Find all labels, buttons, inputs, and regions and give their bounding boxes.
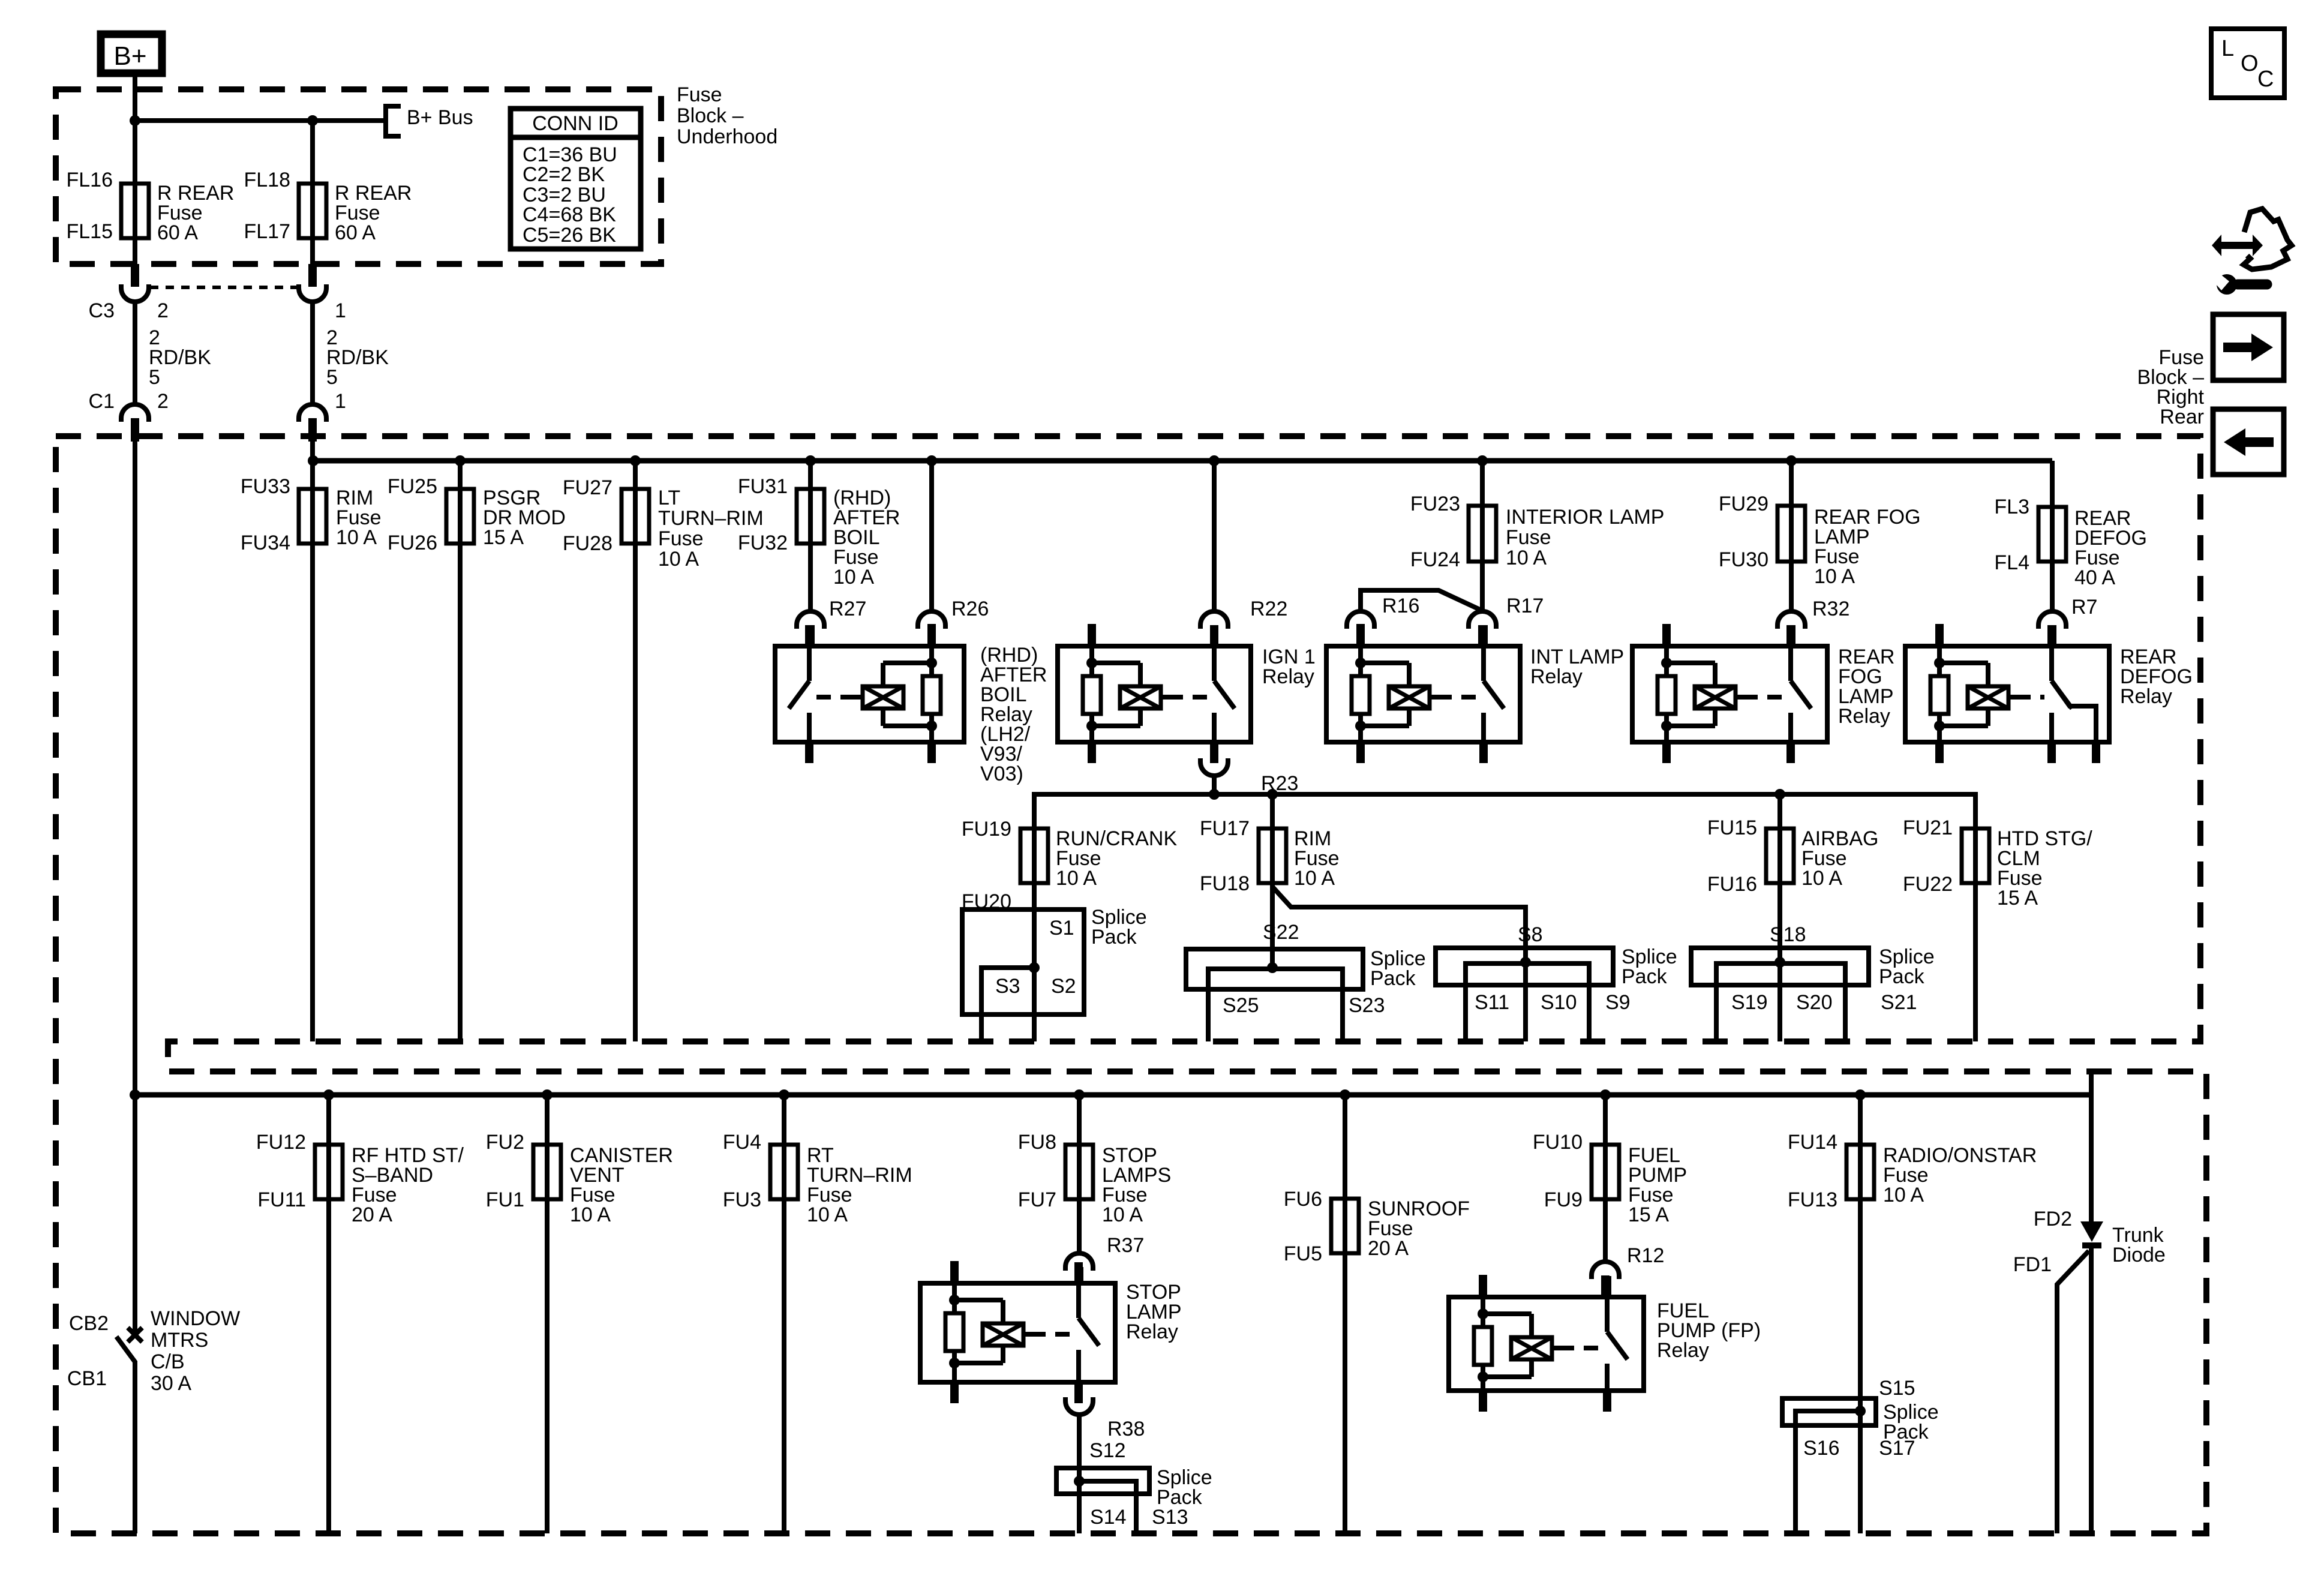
connector B+ Bus bracket (386, 106, 401, 136)
svg-text:15 A: 15 A (1997, 887, 2038, 909)
connector R22 (1200, 611, 1228, 629)
svg-text:60 A: 60 A (157, 221, 198, 244)
wire R16 branch (1361, 590, 1482, 612)
wire diode cathode down (2089, 1248, 2094, 1533)
svg-text:CB2: CB2 (69, 1312, 109, 1335)
svg-text:10 A: 10 A (1801, 867, 1842, 890)
svg-text:60 A: 60 A (335, 221, 376, 244)
wire FU25 column (458, 461, 463, 1041)
table CONN ID (511, 109, 641, 249)
svg-text:FU19: FU19 (962, 818, 1011, 840)
fuse FU19 RUN/CRANK (1020, 828, 1048, 883)
svg-text:FL17: FL17 (244, 220, 291, 243)
svg-text:C: C (2257, 67, 2274, 92)
svg-text:FU33: FU33 (241, 475, 290, 498)
relay U7 coil (1481, 1297, 1485, 1314)
svg-text:FU4: FU4 (723, 1131, 761, 1154)
fuse block right rear dashed outline (56, 436, 2206, 1533)
svg-text:FD1: FD1 (2013, 1253, 2052, 1276)
svg-text:Relay: Relay (1530, 665, 1583, 688)
svg-text:Block –: Block – (677, 104, 744, 127)
svg-text:CONN ID: CONN ID (532, 112, 618, 135)
connector R17 (1469, 611, 1496, 629)
wire trunk diode feed (2089, 1071, 2094, 1221)
connector R16 (1347, 611, 1374, 629)
fuse FU23 INTERIOR LAMP (1469, 506, 1496, 562)
connector C3 pin 2 (131, 264, 139, 287)
svg-text:FU22: FU22 (1903, 873, 1953, 896)
svg-text:INTERIOR LAMP: INTERIOR LAMP (1506, 506, 1664, 529)
svg-text:Fuse: Fuse (658, 527, 704, 550)
fuse FU29 REAR FOG LAMP (1777, 506, 1805, 562)
relay U5 box (1905, 646, 2109, 742)
wire lower bus (135, 1092, 2091, 1098)
svg-text:FU6: FU6 (1284, 1188, 1322, 1211)
splice pack S8 box (1436, 948, 1613, 985)
splice pack S22 box (1186, 949, 1363, 989)
svg-text:WINDOW: WINDOW (151, 1307, 240, 1330)
svg-text:40 A: 40 A (2074, 566, 2115, 589)
svg-text:Pack: Pack (1157, 1486, 1203, 1509)
svg-text:C4=68 BK: C4=68 BK (523, 203, 616, 226)
relay U6 switch (1076, 1283, 1081, 1318)
svg-text:Relay: Relay (1262, 665, 1314, 688)
svg-text:10 A: 10 A (1814, 565, 1855, 588)
svg-text:C1: C1 (89, 390, 115, 413)
wire FD1 branch (2057, 1251, 2089, 1533)
svg-text:Fuse: Fuse (677, 83, 722, 106)
svg-text:C/B: C/B (151, 1350, 185, 1373)
wire R26 (929, 461, 934, 611)
svg-text:FU26: FU26 (388, 532, 437, 554)
fuse FU6 SUNROOF (1331, 1199, 1359, 1253)
svg-text:Pack: Pack (1091, 926, 1137, 948)
svg-text:5: 5 (326, 366, 338, 389)
svg-text:FL3: FL3 (1994, 496, 2029, 518)
wire FU15 column (1777, 794, 1782, 962)
svg-text:Pack: Pack (1883, 1421, 1929, 1443)
svg-text:10 A: 10 A (1102, 1203, 1143, 1226)
svg-text:FU32: FU32 (738, 532, 788, 554)
relay U7 pins (1479, 1275, 1487, 1297)
splice pack S8 exits (1523, 963, 1528, 1041)
svg-text:S18: S18 (1770, 923, 1806, 946)
svg-text:10 A: 10 A (833, 566, 874, 589)
fuse FU31 AFTER BOIL (797, 489, 824, 544)
svg-text:R27: R27 (829, 598, 866, 620)
wire top feed bus (313, 458, 2052, 464)
svg-text:S10: S10 (1541, 991, 1577, 1014)
legend LOC box (2211, 29, 2284, 98)
svg-text:LT: LT (658, 487, 680, 509)
connector C3 pin 1 (308, 264, 317, 287)
svg-text:10 A: 10 A (336, 526, 377, 549)
svg-text:S14: S14 (1090, 1506, 1127, 1529)
wire FU10 column (1603, 1095, 1608, 1262)
fuse FU21 HTD STG/CLM (1962, 828, 1989, 883)
circuit breaker CB2 contact (128, 1328, 142, 1342)
svg-text:FL4: FL4 (1994, 551, 2029, 574)
power symbol B+ (101, 34, 162, 73)
fuse FU27 LT TURN-RIM (621, 489, 649, 544)
wire FU4 column (782, 1095, 786, 1533)
fusible link FL3 REAR DEFOG (2038, 507, 2066, 562)
svg-text:TURN–RIM: TURN–RIM (658, 507, 764, 530)
svg-text:20 A: 20 A (1368, 1237, 1409, 1260)
icon arrow right box (2213, 314, 2284, 380)
svg-text:FU27: FU27 (563, 476, 612, 499)
svg-text:5: 5 (149, 366, 160, 389)
svg-text:R38: R38 (1107, 1418, 1145, 1440)
splice pack S22 bus (1208, 969, 1343, 1041)
connector R7 (2038, 611, 2066, 629)
svg-text:S25: S25 (1223, 994, 1259, 1017)
svg-text:Relay: Relay (1838, 705, 1890, 728)
svg-text:FU10: FU10 (1533, 1131, 1583, 1154)
svg-text:S22: S22 (1263, 921, 1299, 944)
svg-text:FU5: FU5 (1284, 1242, 1322, 1265)
relay U4 box (1632, 646, 1827, 742)
svg-text:O: O (2241, 51, 2259, 76)
wire FU8 column (1077, 1095, 1082, 1253)
svg-text:FU28: FU28 (563, 532, 612, 555)
svg-text:S2: S2 (1051, 975, 1076, 998)
svg-text:Underhood: Underhood (677, 125, 777, 148)
connector R32 (1777, 611, 1805, 629)
svg-text:S8: S8 (1518, 923, 1543, 946)
svg-text:2: 2 (157, 299, 169, 322)
node lower bus junctions (130, 1089, 140, 1100)
relay U6 pins (950, 1261, 959, 1283)
relay U3 coil (1358, 646, 1363, 663)
circuit breaker CB2 arm (116, 1337, 135, 1362)
svg-text:C5=26 BK: C5=26 BK (523, 224, 616, 247)
svg-text:1: 1 (335, 390, 346, 413)
relay U2 pins (1088, 624, 1096, 646)
svg-text:2: 2 (157, 390, 169, 413)
svg-text:FU16: FU16 (1707, 873, 1757, 896)
icon vehicle location (2212, 235, 2263, 256)
relay U7 switch (1605, 1297, 1610, 1332)
connector C1 pin 2 (121, 404, 149, 422)
relay U7 box (1449, 1297, 1644, 1391)
svg-text:Pack: Pack (1622, 965, 1668, 988)
svg-text:10 A: 10 A (1883, 1184, 1924, 1206)
svg-text:S21: S21 (1881, 991, 1917, 1014)
svg-text:FL15: FL15 (67, 220, 113, 243)
relay U1 pins (927, 624, 936, 646)
svg-text:S12: S12 (1089, 1439, 1126, 1462)
svg-text:Pack: Pack (1370, 967, 1416, 990)
relay U5 switch (2049, 646, 2054, 681)
wire FU29 column (1789, 461, 1794, 611)
connector R26 (918, 611, 945, 629)
svg-text:S9: S9 (1605, 991, 1631, 1014)
wire CB1 output (133, 1361, 137, 1533)
splice pack S15 bus (1795, 1411, 1860, 1533)
svg-text:FU17: FU17 (1200, 817, 1250, 840)
relay U2 switch (1212, 646, 1217, 681)
svg-text:R22: R22 (1250, 598, 1287, 620)
fuse FU10 FUEL PUMP (1592, 1145, 1619, 1199)
wire FU12 column (326, 1095, 331, 1533)
svg-text:R32: R32 (1812, 598, 1849, 620)
svg-text:FU7: FU7 (1018, 1188, 1056, 1211)
wire R22 (1212, 461, 1217, 611)
wire FU6 column (1343, 1095, 1347, 1533)
relay U1 switch (807, 646, 812, 681)
svg-text:Relay: Relay (1126, 1320, 1178, 1343)
svg-text:Rear: Rear (2160, 406, 2204, 428)
svg-text:FU31: FU31 (738, 475, 788, 498)
svg-text:B+: B+ (113, 41, 146, 71)
splice pack S18 box (1691, 948, 1869, 985)
svg-text:R26: R26 (951, 598, 989, 620)
connector C1 pin 1 (299, 404, 326, 422)
wire FU19 column (1032, 828, 1037, 968)
svg-text:S23: S23 (1349, 994, 1385, 1017)
svg-text:10 A: 10 A (807, 1203, 848, 1226)
fuse FU2 CANISTER VENT (533, 1145, 561, 1199)
svg-text:FU29: FU29 (1719, 493, 1768, 515)
relay U6 box (920, 1283, 1115, 1382)
svg-text:R23: R23 (1261, 772, 1298, 795)
svg-text:S16: S16 (1803, 1437, 1840, 1460)
svg-text:FU18: FU18 (1200, 872, 1250, 895)
svg-text:S15: S15 (1879, 1377, 1915, 1400)
svg-text:10 A: 10 A (1506, 547, 1547, 569)
wire FL3 column (2050, 461, 2055, 611)
node B+ bus junction (130, 115, 140, 126)
svg-text:FU11: FU11 (257, 1188, 306, 1211)
svg-text:Relay: Relay (2120, 685, 2172, 708)
svg-text:S1: S1 (1049, 917, 1074, 939)
svg-text:S11: S11 (1475, 991, 1509, 1014)
fusible link FL18 wire (310, 121, 315, 264)
svg-text:FU24: FU24 (1410, 548, 1460, 571)
svg-text:FU8: FU8 (1018, 1131, 1056, 1154)
wire FU23 column (1480, 461, 1485, 611)
node R23 junctions (1209, 789, 1220, 800)
relay U5 pins (1935, 624, 1944, 646)
splice pack S1 box (962, 909, 1084, 1014)
fusible link FL16 wire (133, 121, 137, 264)
svg-text:20 A: 20 A (352, 1203, 392, 1226)
relay U6 coil (952, 1283, 957, 1300)
fuse FU33 RIM (299, 489, 326, 544)
splice pack S12 box (1056, 1468, 1149, 1494)
wire FU2 column (545, 1095, 550, 1533)
svg-text:FU34: FU34 (241, 532, 290, 554)
wire FU21 column (1973, 828, 1978, 1041)
svg-text:FL16: FL16 (67, 169, 113, 191)
wire B+ feed (133, 77, 137, 121)
svg-text:FD2: FD2 (2034, 1208, 2072, 1230)
svg-text:R16: R16 (1382, 595, 1419, 617)
svg-text:B+ Bus: B+ Bus (407, 106, 473, 129)
svg-text:R17: R17 (1506, 595, 1544, 617)
svg-text:FU14: FU14 (1788, 1131, 1837, 1154)
svg-text:10 A: 10 A (658, 548, 699, 571)
relay U2 box (1058, 646, 1251, 742)
splice pack S15 box (1782, 1398, 1876, 1425)
wire FU31 column (808, 461, 813, 611)
svg-text:FU2: FU2 (486, 1131, 524, 1154)
wire B+ bus (135, 118, 386, 123)
wire FU18 branch to S8 (1272, 887, 1526, 962)
svg-text:FU12: FU12 (256, 1131, 306, 1154)
svg-text:S3: S3 (995, 975, 1020, 998)
svg-text:FU9: FU9 (1544, 1188, 1583, 1211)
svg-text:FU1: FU1 (486, 1188, 524, 1211)
relay U4 coil (1664, 646, 1669, 663)
wire R23 bus (1034, 794, 1975, 828)
fuse block underhood dashed box (56, 89, 661, 264)
fusible link FL16 (121, 184, 149, 238)
connector R12 (1592, 1262, 1619, 1279)
connector R27 (797, 611, 824, 629)
svg-text:R12: R12 (1627, 1244, 1664, 1267)
svg-text:FU3: FU3 (723, 1188, 761, 1211)
fusible link FL18 (299, 184, 326, 238)
svg-text:R7: R7 (2071, 596, 2097, 619)
svg-text:1: 1 (335, 299, 346, 322)
svg-text:10 A: 10 A (1294, 867, 1335, 890)
svg-text:Fuse: Fuse (1506, 526, 1551, 549)
fuse FU15 AIRBAG (1766, 828, 1794, 883)
relay U3 switch (1481, 646, 1486, 681)
fuse FU14 RADIO/ONSTAR (1846, 1145, 1874, 1199)
svg-text:FU13: FU13 (1788, 1188, 1837, 1211)
connector STOP relay output R38 (1065, 1397, 1093, 1415)
fuse FU17 RIM (1259, 828, 1286, 883)
fuse FU12 RF HTD ST (315, 1145, 343, 1199)
node top bus junctions (308, 455, 319, 466)
svg-text:15 A: 15 A (483, 526, 524, 549)
svg-text:Pack: Pack (1879, 965, 1925, 988)
svg-text:10 A: 10 A (570, 1203, 611, 1226)
svg-text:L: L (2221, 36, 2234, 61)
splice pack S8 bus (1466, 963, 1589, 1041)
connector IGN1 relay output (1200, 758, 1228, 776)
svg-text:CB1: CB1 (67, 1367, 107, 1390)
svg-text:FU30: FU30 (1719, 548, 1768, 571)
wire FU17 column (1270, 794, 1275, 968)
splice pack S18 exits (1777, 963, 1782, 1041)
relay U2 coil (1089, 646, 1094, 663)
fuse FU8 STOP LAMPS (1065, 1145, 1093, 1199)
svg-text:R37: R37 (1107, 1234, 1144, 1257)
svg-text:FL18: FL18 (244, 169, 291, 191)
wire FU14 column (1858, 1095, 1863, 1533)
svg-text:V03): V03) (980, 763, 1023, 785)
svg-text:Relay: Relay (1657, 1339, 1709, 1362)
relay U4 switch (1788, 646, 1793, 681)
svg-text:C3: C3 (89, 299, 115, 322)
icon arrow left box (2213, 409, 2284, 475)
svg-text:S19: S19 (1731, 991, 1768, 1014)
splice pack S12 bus (1079, 1481, 1136, 1533)
svg-text:S20: S20 (1796, 991, 1833, 1014)
relay U3 box (1326, 646, 1520, 742)
relay U4 pins (1662, 624, 1671, 646)
relay U1 box (775, 646, 964, 742)
relay U5 coil (1937, 646, 1942, 663)
connector C3 pair line (150, 286, 298, 289)
diode FD trunk (2080, 1221, 2103, 1242)
wire FU33 column (310, 442, 315, 1041)
svg-text:FU15: FU15 (1707, 816, 1757, 839)
splice pack S12 exits (1077, 1481, 1082, 1533)
svg-text:FU25: FU25 (388, 475, 437, 498)
svg-text:FU21: FU21 (1903, 816, 1953, 839)
connector R37 (1065, 1253, 1093, 1271)
svg-text:MTRS: MTRS (151, 1329, 208, 1352)
svg-text:10 A: 10 A (1056, 867, 1097, 890)
wire main feed left (133, 442, 137, 1335)
fuse FU4 RT TURN-RIM (770, 1145, 798, 1199)
svg-text:C2=2 BK: C2=2 BK (523, 163, 605, 186)
svg-text:15 A: 15 A (1628, 1203, 1669, 1226)
svg-text:S13: S13 (1152, 1506, 1188, 1529)
fuse FU25 PSGR DR MOD (446, 489, 474, 544)
svg-text:30 A: 30 A (151, 1372, 191, 1395)
svg-text:FU23: FU23 (1410, 493, 1460, 515)
splice pack S1 bus (981, 968, 1034, 1041)
splice pack S18 bus (1716, 963, 1845, 1041)
relay U3 pins (1356, 624, 1365, 646)
wire FU27 column (633, 461, 638, 1041)
svg-text:Diode: Diode (2112, 1244, 2166, 1266)
relay U1 coil (929, 646, 934, 663)
